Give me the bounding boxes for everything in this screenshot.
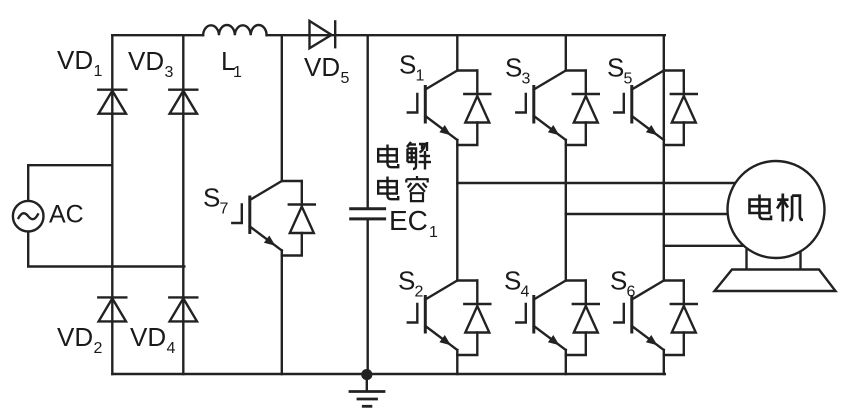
- svg-text:4: 4: [521, 284, 530, 301]
- svg-text:S: S: [505, 53, 522, 83]
- svg-text:S: S: [398, 266, 415, 296]
- svg-text:VD: VD: [130, 322, 166, 352]
- svg-text:4: 4: [167, 340, 176, 357]
- svg-text:2: 2: [94, 340, 103, 357]
- svg-text:2: 2: [415, 284, 424, 301]
- svg-text:6: 6: [627, 284, 636, 301]
- svg-text:3: 3: [165, 64, 174, 81]
- svg-text:VD: VD: [304, 52, 340, 82]
- svg-text:1: 1: [416, 68, 425, 85]
- svg-text:7: 7: [220, 201, 229, 218]
- svg-text:1: 1: [233, 64, 242, 81]
- svg-text:5: 5: [341, 70, 350, 87]
- svg-text:S: S: [610, 266, 627, 296]
- svg-text:1: 1: [94, 63, 103, 80]
- svg-text:S: S: [203, 183, 220, 213]
- svg-text:VD: VD: [57, 45, 93, 75]
- svg-text:VD: VD: [128, 46, 164, 76]
- svg-text:AC: AC: [49, 201, 84, 229]
- svg-text:5: 5: [624, 71, 633, 88]
- svg-text:1: 1: [429, 224, 438, 241]
- svg-text:VD: VD: [57, 322, 93, 352]
- svg-text:S: S: [399, 50, 416, 80]
- svg-text:S: S: [504, 266, 521, 296]
- svg-text:S: S: [607, 53, 624, 83]
- svg-text:3: 3: [522, 71, 531, 88]
- svg-text:EC: EC: [389, 205, 428, 236]
